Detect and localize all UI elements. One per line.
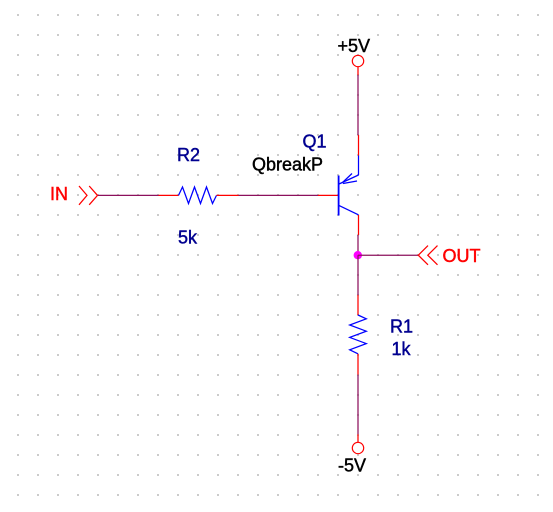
resistor R1 pin 2	[357, 354, 359, 375]
svg-text:QbreakP: QbreakP	[252, 155, 323, 175]
transistor Q1 base bar	[338, 176, 340, 216]
transistor Q1 emitter line	[339, 175, 359, 184]
transistor Q1 emitter arrow barb upper	[342, 174, 352, 184]
transistor Q1 emitter pin	[358, 135, 360, 156]
svg-text:5k: 5k	[178, 228, 198, 248]
svg-text:IN: IN	[50, 184, 68, 204]
port OUT symbol	[418, 246, 437, 265]
svg-text:R2: R2	[177, 145, 200, 165]
wire Q1 collector to node	[357, 235, 359, 255]
resistor R2 pin 2	[217, 194, 239, 196]
power -5V bubble	[352, 442, 363, 453]
wire node to R1	[357, 255, 359, 295]
transistor Q1 base pin	[318, 194, 339, 196]
svg-text:R1: R1	[390, 317, 413, 337]
transistor Q1 collector line	[339, 205, 359, 214]
power -5V pin stub	[357, 434, 359, 442]
power +5V bubble	[352, 55, 363, 66]
wire R2 to Q1 base	[239, 194, 319, 196]
resistor R1 body	[350, 315, 367, 354]
wire IN to R2	[98, 194, 159, 196]
svg-text:Q1: Q1	[303, 132, 327, 152]
transistor Q1 collector pin	[358, 215, 360, 235]
wire R1 to -5V	[357, 375, 359, 435]
svg-text:1k: 1k	[392, 339, 412, 359]
svg-text:OUT: OUT	[443, 246, 481, 266]
port IN symbol	[79, 186, 98, 205]
resistor R1 pin 1	[357, 295, 359, 315]
transistor Q1 emitter stub	[358, 156, 360, 176]
resistor R2 body	[179, 187, 217, 204]
junction node	[354, 251, 362, 259]
resistor R2 pin 1	[159, 194, 179, 196]
transistor Q1 emitter arrow barb lower	[343, 181, 357, 184]
power +5V pin stub	[357, 67, 359, 76]
svg-text:+5V: +5V	[338, 36, 371, 56]
wire node to OUT	[358, 254, 418, 256]
svg-text:-5V: -5V	[338, 456, 366, 476]
wire +5V to Q1 emitter	[357, 75, 359, 135]
